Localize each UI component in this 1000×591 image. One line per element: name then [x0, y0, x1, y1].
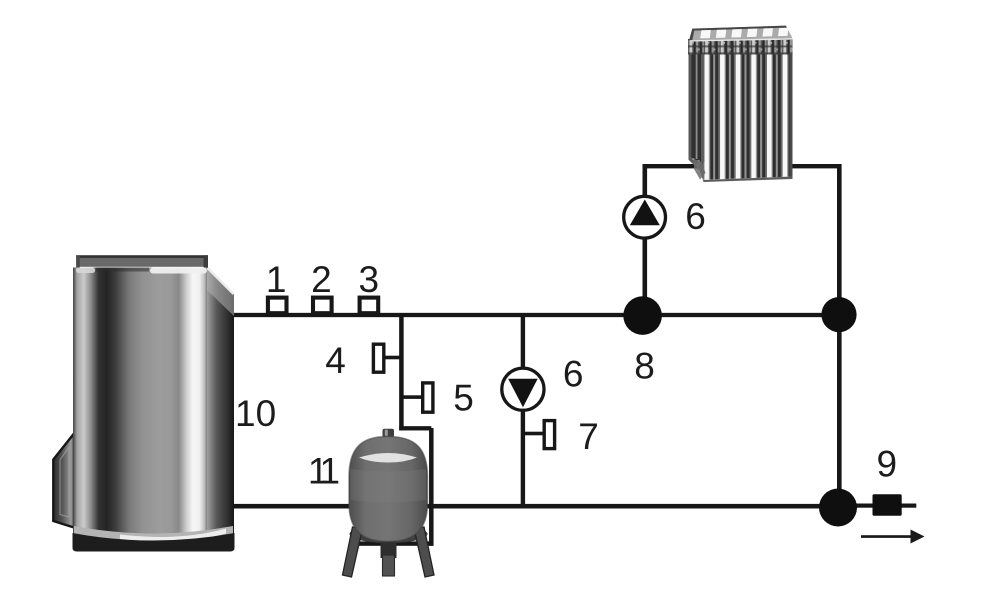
svg-text:10: 10: [235, 393, 276, 434]
svg-text:2: 2: [311, 259, 332, 300]
svg-text:5: 5: [453, 378, 474, 419]
svg-text:1: 1: [266, 259, 287, 300]
svg-text:6: 6: [563, 354, 584, 395]
svg-text:3: 3: [359, 259, 380, 300]
svg-text:7: 7: [578, 416, 599, 457]
svg-text:4: 4: [325, 340, 346, 381]
svg-text:9: 9: [877, 443, 898, 484]
svg-text:6: 6: [685, 196, 706, 237]
svg-text:8: 8: [634, 345, 655, 386]
